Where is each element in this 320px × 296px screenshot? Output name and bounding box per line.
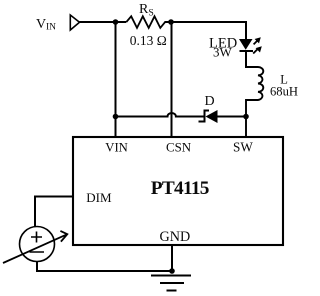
svg-text:0.13 Ω: 0.13 Ω [130, 33, 167, 48]
svg-text:GND: GND [160, 229, 191, 245]
svg-text:3W: 3W [213, 44, 233, 59]
svg-text:D: D [205, 94, 215, 109]
svg-text:V: V [36, 17, 46, 32]
svg-text:S: S [149, 9, 154, 19]
svg-text:CSN: CSN [166, 140, 192, 154]
svg-text:IN: IN [46, 23, 56, 33]
svg-text:R: R [139, 2, 149, 17]
svg-text:VIN: VIN [105, 140, 128, 154]
svg-text:68uH: 68uH [270, 84, 298, 98]
svg-text:DIM: DIM [86, 190, 112, 205]
svg-text:PT4115: PT4115 [151, 178, 209, 199]
svg-text:SW: SW [233, 139, 253, 154]
